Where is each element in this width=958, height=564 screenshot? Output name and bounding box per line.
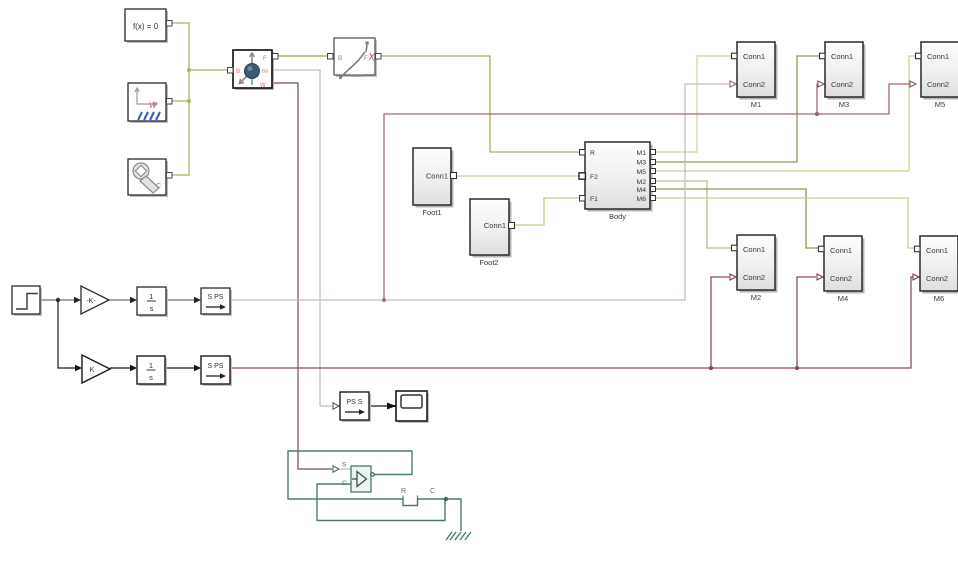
wire 6DOF sensor output down to PS S converter (pale) [272, 70, 332, 406]
block controlled source (teal op-amp) [342, 462, 374, 493]
arrowhead into M4 Conn2 [817, 274, 823, 280]
svg-text:M4: M4 [838, 294, 848, 303]
wire Body M1 to block M1 Conn1 [656, 56, 731, 152]
svg-text:Conn2: Conn2 [926, 274, 948, 283]
wire integrator1 to S PS1 [166, 299, 194, 301]
svg-text:-K-: -K- [86, 298, 96, 305]
block M4 [819, 236, 865, 303]
svg-text:F: F [263, 56, 267, 62]
wire S PS2 output to M6 Conn2 (crimson) [230, 277, 913, 368]
svg-text:F: F [364, 55, 368, 62]
wire stub into S port [339, 468, 351, 470]
arrowhead into M5 Conn2 [910, 81, 916, 87]
block M6 [915, 236, 958, 303]
svg-text:W: W [260, 83, 266, 89]
wire Body M5 to block M5 Conn1 [656, 56, 915, 171]
svg-text:s: s [149, 373, 153, 382]
arrowhead into gain1 [74, 297, 81, 303]
arrowhead into M2 Conn2 [730, 274, 736, 280]
block S PS 1 [201, 288, 232, 316]
svg-text:1: 1 [149, 292, 153, 301]
junction crimson at M4 branch [795, 366, 799, 370]
wire gain1 to integrator1 [109, 299, 130, 301]
svg-text:B: B [338, 55, 342, 62]
arrowhead into gain2 [75, 365, 82, 371]
wire branch up to M2 Conn2 [711, 277, 729, 368]
svg-text:Conn2: Conn2 [743, 273, 765, 282]
svg-text:F2: F2 [590, 174, 598, 181]
wire branch up to M3 Conn2 [817, 84, 818, 114]
svg-text:Conn1: Conn1 [830, 246, 852, 255]
wire Foot2 Conn1 to Body F1 port [515, 198, 579, 225]
svg-text:C: C [430, 488, 435, 495]
svg-text:Conn1: Conn1 [743, 245, 765, 254]
wire teal to ground [446, 499, 461, 531]
svg-text:M3: M3 [839, 100, 849, 109]
svg-text:R: R [590, 150, 595, 157]
wire integrator2 to S PS2 [165, 367, 194, 369]
block M2 [732, 235, 778, 302]
svg-text:Conn2: Conn2 [831, 80, 853, 89]
block PS S converter [340, 392, 371, 422]
wire solver net to 6DOF joint B port [189, 69, 228, 71]
arrowhead into integrator1 [130, 297, 137, 303]
svg-text:M2: M2 [637, 179, 647, 186]
wire step branch down to row2 [58, 300, 75, 368]
block Foot2 [470, 199, 515, 267]
block Rigid Transform [328, 38, 382, 79]
wire 6DOF actuation port down to S input of source block (maroon) [272, 83, 332, 469]
block Solver Configuration f(x)=0 [125, 9, 172, 43]
wire Body M3 to block M3 Conn1 [656, 56, 819, 162]
wire Foot1 Conn1 to Body F2 port [457, 175, 580, 177]
wire Rigid Transform F port to Body R port [381, 56, 579, 152]
svg-text:R: R [401, 488, 406, 495]
svg-text:Foot1: Foot1 [422, 208, 441, 217]
svg-text:F1: F1 [590, 196, 598, 203]
junction teal [444, 497, 448, 501]
svg-text:Body: Body [609, 212, 626, 221]
block World Frame [128, 83, 172, 123]
arrowhead into PS S [333, 403, 339, 409]
svg-text:M4: M4 [637, 187, 647, 194]
svg-text:S PS: S PS [208, 294, 224, 301]
hard stop element notch R-C [403, 499, 446, 506]
svg-text:S PS: S PS [208, 363, 224, 370]
wire teal big loop from source output [288, 451, 412, 499]
wire branch up to M4 Conn2 [797, 277, 816, 368]
arrowhead into M3 Conn2 [818, 81, 824, 87]
svg-text:M5: M5 [935, 100, 945, 109]
junction on maroon wire at M3 branch [815, 112, 819, 116]
wire gain2 to integrator2 [110, 367, 130, 369]
block Integrator1 [137, 287, 168, 317]
svg-text:S: S [342, 462, 347, 469]
svg-text:C: C [342, 480, 347, 487]
arrowhead into S PS2 [194, 365, 201, 371]
svg-text:M6: M6 [637, 196, 647, 203]
block M3 [820, 42, 866, 109]
svg-text:f(x) = 0: f(x) = 0 [133, 22, 159, 31]
block M1 [732, 42, 778, 109]
wire teal C loop [317, 484, 445, 521]
arrowhead into S port [333, 466, 339, 472]
svg-text:Conn1: Conn1 [927, 52, 949, 61]
svg-text:Conn2: Conn2 [743, 80, 765, 89]
svg-text:Conn1: Conn1 [484, 221, 506, 230]
block Scope [393, 391, 429, 423]
svg-text:M1: M1 [637, 150, 647, 157]
svg-text:K: K [90, 367, 95, 374]
block Foot1 [413, 148, 457, 217]
block S PS 2 [201, 356, 232, 386]
svg-text:Conn1: Conn1 [426, 172, 448, 181]
wire Body M4 to block M4 Conn1 [656, 189, 818, 248]
svg-text:Conn1: Conn1 [743, 52, 765, 61]
wire step output row1 (black) [40, 299, 74, 301]
wire branch to M3/M5 Conn2 (maroon) [384, 84, 910, 300]
svg-text:PS S: PS S [347, 399, 363, 406]
block Integrator2 [137, 356, 167, 386]
wire solver-config net (f(x)=0 / World Frame / Mechanism Config vertical bus) [172, 23, 189, 175]
svg-text:Foot2: Foot2 [479, 258, 498, 267]
block Gain1 -K- [81, 286, 109, 314]
junction solver net at joint B [187, 68, 191, 72]
wire S PS1 output to M1 Conn2 (pale pink) [230, 84, 729, 300]
wire PS S to Scope (black) [369, 405, 388, 407]
svg-text:Conn1: Conn1 [926, 246, 948, 255]
arrowhead into S PS1 [194, 297, 201, 303]
svg-text:s: s [150, 304, 154, 313]
arrowhead into M6 Conn2 [913, 274, 919, 280]
svg-text:Conn2: Conn2 [830, 274, 852, 283]
svg-text:M2: M2 [751, 293, 761, 302]
ground reference hatch [446, 532, 471, 540]
svg-text:M6: M6 [934, 294, 944, 303]
arrowhead into Scope [387, 403, 396, 410]
svg-text:6a: 6a [262, 69, 269, 75]
block Gain2 K [82, 355, 110, 383]
svg-text:M5: M5 [637, 169, 647, 176]
block Body [579, 142, 656, 221]
wire Body M2 to block M2 Conn1 [656, 181, 731, 248]
svg-text:C: C [156, 183, 161, 190]
block Mechanism Configuration (wrench) [128, 159, 172, 197]
arrowhead into integrator2 [130, 365, 137, 371]
svg-text:Conn2: Conn2 [927, 80, 949, 89]
arrowhead into M1 Conn2 [730, 81, 736, 87]
junction solver net at world frame [187, 99, 191, 103]
junction on pale wire [382, 298, 386, 302]
svg-text:Conn1: Conn1 [831, 52, 853, 61]
block 6-DOF Joint [228, 50, 279, 90]
wire Body M6 to block M6 Conn1 [656, 198, 914, 248]
wire 6DOF F port to Rigid Transform B port [278, 55, 328, 57]
junction crimson at M2 branch [709, 366, 713, 370]
svg-text:B: B [236, 69, 240, 75]
svg-text:M1: M1 [751, 100, 761, 109]
junction step branch [56, 298, 60, 302]
block M5 [916, 42, 958, 109]
block Step [12, 286, 42, 316]
svg-text:1: 1 [149, 361, 153, 370]
svg-text:M3: M3 [637, 160, 647, 167]
